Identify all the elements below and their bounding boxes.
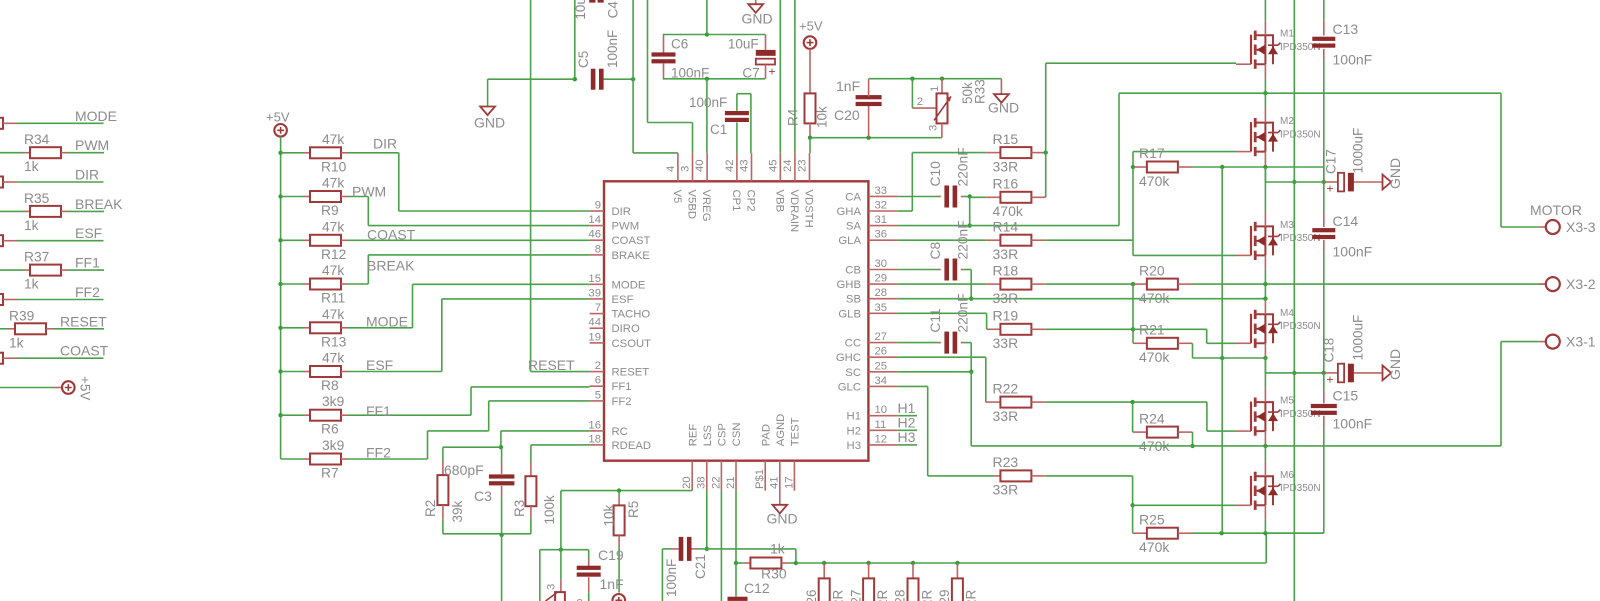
svg-text:BRAKE: BRAKE [612,250,651,262]
wire R7 right pin [341,458,348,460]
svg-text:H3: H3 [847,440,861,452]
svg-text:R24: R24 [1139,411,1165,427]
wire net VBB vertical [779,0,781,153]
wire C6/C7 box top rail [663,34,766,36]
svg-text:38: 38 [696,476,708,489]
junction M2 source [1263,165,1267,169]
wire net REF [561,490,692,492]
svg-text:47k: 47k [322,351,344,366]
svg-text:47k: 47k [322,176,344,191]
wire R33 pin1 [941,79,943,94]
wire M3 drain [1264,167,1266,212]
resistor stub (off-page) at net ESF [0,235,3,246]
junction REF corner [559,548,563,552]
ground GND (top-left) [480,107,495,116]
svg-text:SB: SB [846,294,861,306]
svg-text:M2: M2 [1280,116,1294,127]
svg-text:H1: H1 [898,400,916,416]
svg-text:4: 4 [665,166,677,172]
wire C3 bottom to page bottom [501,535,503,601]
svg-text:CP1: CP1 [730,190,742,212]
svg-text:REF: REF [687,424,699,447]
wire R4 bottom to VDSTH junction [809,123,811,137]
IC pin 18 RDEAD [590,444,604,446]
resistor R6 3k9 [310,410,341,421]
svg-text:1k: 1k [24,277,39,292]
junction box top [705,32,709,36]
transistor M1 IPD350N [1250,35,1252,64]
wire net ESF [348,371,442,373]
wire net MODE [3,122,18,124]
wire LSS sense rail [796,562,1266,564]
svg-text:R23: R23 [993,454,1019,470]
resistor stub (off-page) at net FF2 [0,294,3,305]
svg-text:1k: 1k [770,540,786,556]
wire M1 gate net [1045,63,1047,152]
svg-text:MODE: MODE [612,279,646,291]
svg-text:28: 28 [875,287,888,299]
svg-text:R35: R35 [24,191,50,206]
wire M4 source [1264,343,1266,357]
wire C-column C17 to C14 [1323,182,1325,212]
svg-text:R9: R9 [321,203,339,218]
ground GND (R33 rail) [1000,79,1002,94]
svg-text:47k: 47k [322,132,344,147]
svg-text:33R: 33R [993,246,1019,262]
svg-text:GND: GND [474,115,505,131]
svg-text:VREG: VREG [700,190,712,222]
junction +5V / R9 [278,194,282,198]
svg-text:AGND: AGND [775,414,787,447]
wire R24 feed [1132,402,1134,432]
svg-text:+: + [769,65,776,79]
svg-text:25: 25 [875,360,888,372]
wire R13 right pin [341,327,348,329]
svg-text:R12: R12 [321,247,346,262]
svg-text:FF1: FF1 [612,381,632,393]
svg-text:VBB: VBB [773,190,785,213]
svg-text:IPD350N: IPD350N [1280,321,1321,332]
IC pin 36 GLA [868,239,897,241]
svg-text:33R: 33R [993,335,1019,351]
capacitor C17 1000uF (electrolytic) [1324,181,1338,183]
wire net CB [898,269,938,271]
svg-text:1k: 1k [9,335,24,350]
svg-text:C5: C5 [576,51,591,68]
svg-text:33: 33 [875,185,888,197]
svg-text:33R: 33R [993,482,1019,498]
svg-text:7: 7 [595,302,601,314]
IC pin 25 SC [868,371,897,373]
svg-text:C7: C7 [742,65,759,80]
svg-text:10k: 10k [602,504,617,526]
svg-text:R17: R17 [1139,145,1165,161]
svg-text:DIR: DIR [373,136,397,152]
wire +5V to R4 [809,49,811,94]
wire M2 gate row [1132,152,1134,167]
wire net V5BD vertical [647,0,649,123]
junction bus bottom [1219,531,1223,535]
svg-text:3k9: 3k9 [322,438,345,453]
svg-text:M6: M6 [1280,470,1294,481]
junction M6 source [1263,531,1267,535]
junction C3 bottom [499,533,503,537]
wire net DIR [348,152,399,154]
svg-text:1k: 1k [24,218,39,233]
resistor R25 470k [1133,532,1147,534]
svg-text:GND: GND [1387,349,1403,380]
wire net GHA jog [898,210,913,212]
wire M1 drain to top [1264,0,1266,21]
junction R23/R25/M6-gate [1130,503,1134,507]
wire C8 right to SB [970,270,972,299]
wire M2 source [1264,152,1266,166]
wire R10 left pin [281,152,303,154]
svg-text:100nF: 100nF [605,30,620,68]
junction C17 plus [1322,180,1326,184]
wire C13 bottom to C-column [1323,62,1325,182]
junction rail/R26 [822,561,826,565]
svg-text:GLA: GLA [838,235,861,247]
junction CSN/R30 [734,561,738,565]
wire LSS to sense rail [707,548,796,550]
wire SC down to M5 source row [970,372,972,446]
wire net VDSTH to pin 23 [809,138,811,153]
svg-text:R7: R7 [321,466,339,481]
svg-text:47k: 47k [322,263,344,278]
resistor R16 470k [1000,192,1031,203]
IC pin 46 COAST [590,239,604,241]
wire gate bus vertical [1221,167,1223,533]
svg-text:RC: RC [612,426,628,438]
resistor R34 1k [30,147,61,158]
svg-text:5: 5 [595,389,601,401]
resistor stub (off-page) at net DIR [0,177,3,188]
svg-text:V5BD: V5BD [686,190,698,220]
svg-text:GND: GND [988,100,1019,116]
junction R22/R24/M5-gate [1130,400,1134,404]
resistor R20 470k [1133,283,1147,285]
wire R18 node to R19 node [1132,284,1134,329]
junction box bottom [705,77,709,81]
capacitor C19 1nF [588,550,590,558]
svg-text:DIRO: DIRO [612,323,640,335]
svg-text:X3-1: X3-1 [1566,334,1596,350]
svg-text:17: 17 [783,476,795,489]
wire R11 right pin [341,283,348,285]
svg-text:R10: R10 [321,159,347,174]
capacitor C7 10uF (electrolytic) [765,35,767,50]
wire R12 left pin [281,239,303,241]
resistor R8 47k [310,366,341,377]
wire net FF2 [3,299,18,301]
IC pin 30 CB [868,269,897,271]
svg-text:R34: R34 [24,132,50,147]
junction rail/R27 [866,561,870,565]
svg-text:32: 32 [875,200,888,212]
svg-text:3: 3 [928,125,940,131]
wire net SB [898,298,971,300]
svg-text:PWM: PWM [352,184,386,200]
svg-text:47k: 47k [322,219,344,234]
svg-text:C18: C18 [1322,338,1337,363]
capacitor C10 220nF [938,196,941,198]
wire R2 bottom [442,505,444,520]
svg-text:16: 16 [588,419,601,431]
wire net H2 stub [898,429,917,431]
wire R7 left pin [281,458,303,460]
junction +5V / R6 [278,413,282,417]
IC pin 8 BRAKE [590,254,604,256]
resistor R4 10k [805,93,816,123]
svg-text:26: 26 [875,346,888,358]
junction 1294 to C18 row [1292,371,1296,375]
IC pin 21 CSN [735,461,737,491]
svg-text:35: 35 [875,302,888,314]
svg-text:X3-3: X3-3 [1566,219,1596,235]
svg-text:C17: C17 [1324,149,1339,174]
svg-text:23: 23 [797,159,809,172]
wire C18 node row [1265,372,1323,374]
svg-text:R18: R18 [993,263,1019,279]
svg-text:VDRAIN: VDRAIN [788,190,800,233]
wire R6 right pin [341,414,348,416]
capacitor C3 680pF [501,447,503,462]
svg-text:H2: H2 [898,415,916,431]
svg-text:R11: R11 [321,291,345,306]
svg-text:470k: 470k [1139,349,1170,365]
wire net CA [898,196,938,198]
wire M3 gate row [1133,254,1236,256]
svg-text:RESET: RESET [612,367,650,379]
svg-text:RESET: RESET [60,313,107,329]
resistor R10 47k [310,147,341,158]
junction M4 drain [1263,297,1267,301]
junction RC node [499,445,503,449]
junction bus / M4 source row [1220,356,1224,360]
svg-text:R2: R2 [423,500,438,517]
resistor R28 22R (cut off at bottom) [912,563,914,578]
IC pin 3 V5BD [692,153,694,181]
svg-text:H1: H1 [847,411,861,423]
svg-text:MOTOR: MOTOR [1530,202,1582,218]
wire net CP2: C1 top jog to pin 43 [736,94,738,111]
svg-text:44: 44 [588,317,601,329]
svg-text:R13: R13 [321,334,347,349]
junction R30 right / LSS [794,561,798,565]
svg-text:R15: R15 [993,131,1019,147]
svg-text:C11: C11 [928,308,943,332]
junction +5V / R11 [278,282,282,286]
svg-text:GHA: GHA [837,206,862,218]
IC pin 44 DIRO [590,327,604,329]
svg-text:100k: 100k [542,495,557,525]
svg-text:+5V: +5V [266,110,290,125]
wire net CP1: C1 bottom to pin 42 [736,122,738,152]
IC pin 20 REF [691,461,693,491]
wire net PWM (left) [0,152,23,154]
wire net GHB with R18 [898,283,986,285]
resistor R3 100k [530,445,532,462]
wire M4 drain [1264,299,1266,300]
ground GND (above box) [755,0,757,4]
svg-text:BREAK: BREAK [367,258,415,274]
svg-text:TACHO: TACHO [612,309,651,321]
svg-text:SC: SC [845,367,861,379]
svg-text:R29: R29 [937,590,952,601]
wire GLA to M2 gate / M3 gate [1132,167,1134,255]
svg-text:6: 6 [595,375,601,387]
wire M3 source [1264,255,1266,269]
supply +5V symbol (resistor bank) [274,124,287,137]
junction rail/R28 [911,561,915,565]
wire net MODE [348,327,413,329]
svg-text:FF1: FF1 [366,403,391,419]
svg-text:CA: CA [845,191,861,203]
capacitor C6 100nF [663,35,665,53]
wire R10 right pin [341,152,348,154]
svg-text:220nF: 220nF [956,293,971,332]
wire net FF1 (left) [0,269,23,271]
resistor R22 33R [1000,397,1031,408]
wire net CC [898,342,938,344]
svg-text:470k: 470k [1139,539,1170,555]
capacitor C18 1000uF (electrolytic) [1324,372,1338,374]
IC pin 24 VDRAIN [794,153,796,181]
svg-text:33R: 33R [993,290,1019,306]
capacitor C12 (cut off) [728,597,748,601]
svg-text:R3: R3 [512,500,527,517]
svg-text:ESF: ESF [75,225,102,241]
wire C10 junction to SA [969,197,971,226]
svg-text:100nF: 100nF [689,95,727,110]
IC pin 34 GLC [868,385,897,387]
wire M5 source row [971,445,1192,447]
svg-text:100nF: 100nF [671,65,709,80]
junction rail/R29 [955,561,959,565]
resistor R5 10k [618,491,620,497]
svg-text:R26: R26 [804,590,819,601]
IC pin 29 GHB [868,283,897,285]
capacitor C14 100nF [1312,228,1335,232]
svg-text:1000uF: 1000uF [1351,315,1366,361]
svg-text:C15: C15 [1333,388,1359,404]
wire R5 bottom to +5V [618,535,620,546]
wire CSN to C12 [735,563,737,597]
resistor stub (off-page) at net MODE [0,118,3,129]
resistor R27 22R (cut off at bottom) [868,563,870,578]
transistor M2 IPD350N [1250,122,1252,152]
IC pin 31 SA [868,225,897,227]
svg-text:1: 1 [929,86,941,92]
IC pin 27 CC [868,342,897,344]
wire REF corner rails [540,549,561,551]
wire R23 right to M6 gate node [1046,475,1133,477]
svg-text:GLB: GLB [838,308,861,320]
wire M2.S row to C column [1323,167,1325,182]
svg-text:C20: C20 [834,107,860,123]
svg-text:22: 22 [710,476,722,489]
svg-text:CSN: CSN [731,422,743,446]
svg-text:33R: 33R [993,159,1019,175]
svg-text:TEST: TEST [790,417,802,446]
svg-text:40: 40 [694,159,706,172]
svg-text:27: 27 [875,331,888,343]
resistor R15 33R [986,152,1000,154]
resistor R12 47k [310,235,341,246]
svg-text:2: 2 [917,96,923,108]
svg-text:M3: M3 [1280,220,1294,231]
junction M5 source [1263,444,1267,448]
wire phase A to X3-3 [1500,93,1502,227]
connector X3-3 [1546,220,1560,234]
wire box top to page top [706,0,708,35]
wire R16 right to gate node [1045,153,1047,198]
wire R33 top rail [869,78,1002,80]
junction +5V / R10 [278,151,282,155]
wire R24 right to M5 source row [1192,432,1194,446]
IC pin 38 LSS [706,461,708,491]
wire M2 drain [1264,93,1266,108]
svg-text:M4: M4 [1280,308,1294,319]
IC pin 26 GHC [868,356,897,358]
junction M3.S/M4.D phase B [1263,282,1267,286]
wire net GLC jog [898,385,928,387]
svg-text:10k: 10k [815,106,830,128]
wire C-column C18 to C15 [1323,373,1325,391]
wire net FF1 (right) [61,269,68,271]
connector X3-1 [1546,335,1560,349]
svg-text:C6: C6 [671,37,688,52]
resistor R13 47k [310,322,341,333]
resistor R18 33R [986,283,1000,285]
svg-text:SA: SA [846,221,862,233]
resistor R7 3k9 [310,454,341,465]
svg-text:R30: R30 [761,566,787,582]
svg-text:COAST: COAST [60,343,109,359]
wire net CSN [735,491,737,563]
svg-text:R27: R27 [848,590,863,601]
svg-text:33R: 33R [993,408,1019,424]
IC pin 40 VREG [706,153,708,181]
transistor M5 IPD350N [1250,402,1252,432]
junction SB node [969,297,973,301]
svg-text:R6: R6 [321,422,339,437]
wire R33 pin2 [911,79,913,108]
resistor R17 470k [1133,166,1147,168]
svg-text:LSS: LSS [702,424,714,446]
svg-text:IPD350N: IPD350N [1280,483,1321,494]
IC pin 2 RESET [590,371,604,373]
wire net FF2 [348,458,428,460]
junction +5V / R12 [278,238,282,242]
wire M1 source to phase A [1264,64,1266,78]
svg-text:GND: GND [767,511,798,527]
svg-text:12: 12 [875,433,888,445]
wire R9 right pin [341,196,348,198]
svg-text:3: 3 [680,166,692,172]
svg-text:24: 24 [782,159,794,172]
IC pin 15 MODE [590,283,604,285]
svg-text:19: 19 [588,331,601,343]
svg-text:R16: R16 [993,176,1019,192]
wire VBB vertical 1294 [1293,0,1295,182]
resistor R39 1k [15,323,46,334]
svg-text:M5: M5 [1280,396,1294,407]
ground GND (AGND) [779,491,781,505]
svg-text:21: 21 [725,476,737,489]
transistor M4 IPD350N [1250,314,1252,344]
